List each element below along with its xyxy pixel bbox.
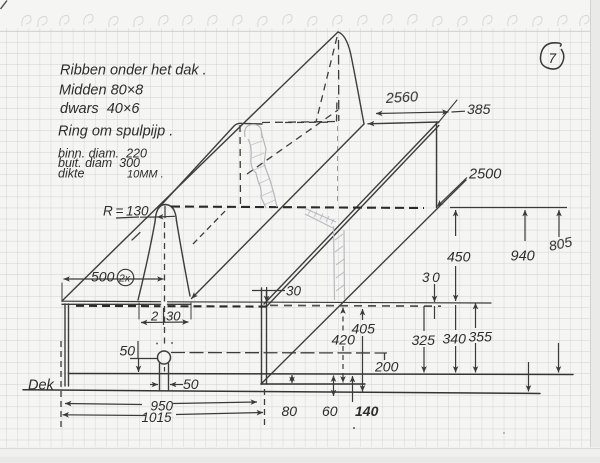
stray tick crossing ridge <box>132 233 140 241</box>
small rib rounded top <box>155 205 177 223</box>
Dek line <box>23 390 540 394</box>
svg-text:1015: 1015 <box>142 410 173 425</box>
small rib right base tick below deck <box>190 303 192 319</box>
svg-text:Dek: Dek <box>28 378 55 394</box>
big spike dashed centerline down to hidden plate <box>338 40 340 121</box>
svg-text:2560: 2560 <box>384 89 418 107</box>
svg-text:Ribben onder het dak .: Ribben onder het dak . <box>60 63 207 79</box>
right rib wall double line <box>261 288 263 384</box>
end tick of pipe-top line <box>384 353 386 360</box>
svg-text:80: 80 <box>282 403 298 419</box>
dim 940 arrow <box>524 210 526 241</box>
dim 325 upper segment <box>423 306 425 331</box>
diagonal C overshoot past junction <box>438 100 457 123</box>
ghost rib hatch strokes <box>251 141 275 205</box>
svg-text:450: 450 <box>447 249 471 265</box>
dim 355 upper arrow at deck <box>475 303 477 328</box>
dim 30 left down arrow <box>266 287 268 302</box>
hidden plate dashed right riser <box>336 97 339 122</box>
ghost rib profile right edge <box>262 133 278 207</box>
svg-text:355: 355 <box>469 329 493 345</box>
dashed extension below right rib wall <box>264 389 266 428</box>
svg-text:30: 30 <box>166 309 181 324</box>
ghost pipe body right line <box>343 230 346 299</box>
hidden plate dashed top <box>262 122 336 123</box>
R 130 underline <box>116 217 139 218</box>
small dashed diagonal near small rib <box>193 208 228 244</box>
ghost pipe body left line <box>334 226 335 300</box>
svg-text:dikte: dikte <box>58 167 84 181</box>
dim 50 horizontal tick <box>130 358 158 360</box>
dim 30 right tail below deck <box>434 306 436 319</box>
dim 140 up arrow <box>352 376 354 402</box>
roof plank upper line from small rib peak to corner <box>158 123 262 208</box>
dim 950 left arrow <box>65 404 142 405</box>
down arrow to Dek line right <box>528 362 530 392</box>
svg-text:30: 30 <box>286 284 302 299</box>
dim 450 upper arrow <box>455 210 457 236</box>
ghost rib profile left edge <box>248 139 266 208</box>
dim 340 lower segment <box>455 305 457 330</box>
svg-text:500: 500 <box>91 269 115 285</box>
hidden plate dashed left side <box>239 125 242 206</box>
dim 50 pipe right arrow <box>170 384 183 386</box>
dim 80 double arrow <box>291 375 293 383</box>
dim 50 vertical tick <box>137 341 139 358</box>
dashed extension below left deck corner <box>60 341 62 428</box>
dim 325 arrow <box>423 347 425 373</box>
deck top line <box>62 301 491 303</box>
svg-text:325: 325 <box>412 332 436 348</box>
dim 405 lower arrow <box>362 336 364 392</box>
spool pipe walls <box>159 364 161 391</box>
ghost pipe body hatches <box>335 234 344 291</box>
spiral binding tear marks along top <box>22 14 589 27</box>
dim 340 arrow to line <box>455 346 457 373</box>
dim 450/340 mid segment with deck arrow <box>455 266 457 301</box>
dashed diagonal through spike base <box>247 110 338 174</box>
dim 50 down arrow <box>138 359 140 372</box>
page number circled 7 <box>540 43 563 69</box>
horizontal line from right rib bottom point <box>261 383 365 385</box>
heavy dashed deck edge behind ribs <box>76 305 270 308</box>
ghost rib profile top hook <box>245 124 262 138</box>
dim 2/30 arrow line <box>141 321 189 324</box>
dim 355 lower arrow <box>475 343 477 373</box>
small rib dashed centerline <box>164 222 166 348</box>
svg-text:940: 940 <box>511 249 535 265</box>
svg-text:200: 200 <box>374 359 399 375</box>
dim 1015 right arrow <box>176 413 263 415</box>
svg-text:2x: 2x <box>118 273 131 285</box>
right page edge strip <box>590 0 600 463</box>
dim 805 arrow <box>558 210 560 237</box>
dim 50 pipe left arrow <box>150 384 158 386</box>
svg-text:dwars 40×6: dwars 40×6 <box>60 101 140 117</box>
ridge diagonal from deck corner to big spike peak <box>62 32 338 301</box>
corner pen mark top-left <box>1 1 8 10</box>
dim 2500 base line <box>450 207 567 209</box>
diagonal B roof back edge with arrow at small rib base <box>192 124 365 299</box>
svg-text:140: 140 <box>355 403 379 419</box>
circle 2x <box>117 269 133 285</box>
svg-text:Midden 80×8: Midden 80×8 <box>59 83 143 99</box>
diagonal D from right rib bottom point <box>261 180 466 384</box>
dim 420 dashed lower arrow <box>342 346 344 383</box>
dim 2500 leader <box>437 178 467 207</box>
svg-text:385: 385 <box>467 101 491 117</box>
svg-text:10MM .: 10MM . <box>127 169 164 181</box>
dim 30 left tick <box>252 290 285 292</box>
dim 950 right arrow <box>173 402 257 404</box>
pipe centerline tick <box>164 367 166 372</box>
dim 1015 left arrow <box>63 414 147 417</box>
dim 420 dashed upper arrow <box>342 308 344 332</box>
svg-text:340: 340 <box>443 331 467 347</box>
heavy dashed hidden roof edge y207 <box>171 207 424 209</box>
ghost pipe elbow hatches <box>308 210 334 225</box>
svg-text:Ring om spulpijp .: Ring om spulpijp . <box>58 124 173 140</box>
diagonal C double plank edge from right rib to 2560 junction <box>264 123 437 304</box>
dim 2560 arrow line <box>376 112 449 114</box>
big spike dashed left edge <box>316 37 337 122</box>
R 130 radius tick <box>164 206 166 218</box>
faint dashed pipe centerline mid section <box>337 126 339 205</box>
spool pipe circle <box>158 351 171 364</box>
stray dot marks <box>353 427 355 429</box>
horizontal line from big spike base to junction <box>368 122 439 124</box>
svg-text:60: 60 <box>322 403 338 419</box>
left wall double line <box>64 304 66 386</box>
right end down arrow to y374 line <box>558 343 560 373</box>
svg-text:R = 130: R = 130 <box>103 204 149 219</box>
bottom page edge strip <box>0 447 600 463</box>
svg-text:2: 2 <box>150 309 159 324</box>
dim 2/30 extension tick <box>163 308 165 325</box>
dim 30 right down arrow <box>434 284 436 302</box>
small rib left base tick below deck <box>138 303 140 319</box>
dim 500 arrow line <box>64 278 164 280</box>
small rib right side <box>177 221 191 296</box>
svg-text:3 0: 3 0 <box>422 270 440 285</box>
gray dashed deck edge right section <box>270 304 441 307</box>
small rib left side <box>138 222 155 300</box>
dashed pipe-top level line <box>171 352 387 355</box>
ghost pipe elbow band <box>305 209 336 229</box>
svg-text:405: 405 <box>352 321 376 337</box>
dim 385 stub line <box>452 110 466 113</box>
svg-text:2500: 2500 <box>468 167 501 183</box>
svg-text:50: 50 <box>183 376 199 392</box>
big spike right side <box>338 32 364 124</box>
svg-text:7: 7 <box>549 51 557 66</box>
dim 60 double arrow <box>333 376 335 397</box>
long horizontal line y374 <box>69 374 574 375</box>
R 130 pointer arrow <box>157 215 175 218</box>
vertical from 2560 junction down to 2500 line <box>436 122 438 208</box>
dashed horizontal at spike base <box>285 121 328 123</box>
left wall corner tick <box>61 283 63 301</box>
svg-text:50: 50 <box>120 343 136 359</box>
dim 405 upper arrow <box>362 309 364 320</box>
deck second line left section <box>62 303 191 305</box>
